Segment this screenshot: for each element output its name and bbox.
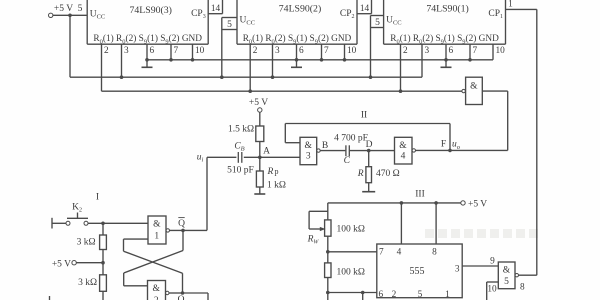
svg-text:R0(1) R0(2) S9(1) S9(2) GND: R0(1) R0(2) S9(1) S9(2) GND xyxy=(243,33,352,45)
ground at U1 pin6 xyxy=(441,60,452,68)
U1 pin 5 box (UCC) xyxy=(371,16,384,29)
counter U2 pin label U_CC xyxy=(240,16,256,27)
gate 5 output bubble xyxy=(515,274,518,277)
svg-text:UCC: UCC xyxy=(240,16,256,27)
svg-text:C: C xyxy=(344,156,351,166)
svg-text:3: 3 xyxy=(124,46,129,56)
label 555 xyxy=(410,266,425,277)
faint watermark remnant xyxy=(425,229,538,238)
svg-text:+5 V: +5 V xyxy=(468,200,487,210)
555 pin label 5 xyxy=(418,290,423,300)
svg-text:2: 2 xyxy=(403,46,408,56)
resistor 1.5 kOhm xyxy=(256,126,264,142)
svg-text:6: 6 xyxy=(379,290,384,300)
wire U2 pin10 xyxy=(344,44,346,60)
svg-text:10: 10 xyxy=(347,46,357,56)
svg-text:3: 3 xyxy=(425,46,430,56)
wire pin2 tie down (cut) xyxy=(362,293,364,300)
node U1 pin7 junction xyxy=(468,58,472,62)
svg-text:10: 10 xyxy=(496,46,506,56)
node U3 pin7 junction xyxy=(169,58,173,62)
svg-text:4: 4 xyxy=(401,152,406,162)
node pin6 line left junction xyxy=(326,291,330,295)
wire junction down (cut) xyxy=(327,293,329,300)
label Qbar xyxy=(178,218,185,229)
node pot / pin7 junction xyxy=(326,250,330,254)
counter U3 pin number 3 xyxy=(124,46,129,56)
label 470 Ohm xyxy=(376,169,400,179)
node A xyxy=(258,147,270,160)
gate 2 output bubble xyxy=(166,291,169,294)
gate 3 output bubble xyxy=(317,149,320,152)
label gate5 pin 9 xyxy=(490,257,495,267)
wire Qbar down (cross) xyxy=(182,230,184,250)
node U1 pin2 junction xyxy=(399,89,403,93)
U3 pin 14 box (CP) xyxy=(208,0,222,14)
node F xyxy=(448,149,452,153)
svg-text:Q: Q xyxy=(178,295,185,300)
wire 555 pin4 xyxy=(400,203,402,244)
label 1 kOhm xyxy=(267,181,286,191)
node D xyxy=(366,140,373,152)
svg-text:R: R xyxy=(357,169,364,179)
node 555 pin4 tap xyxy=(400,201,404,205)
label III xyxy=(415,190,425,200)
svg-text:2: 2 xyxy=(154,296,159,300)
wire U3 pin10 GND xyxy=(192,44,194,60)
counter U1 74LS90(1) body xyxy=(384,0,506,44)
wire gate4 output to node F xyxy=(416,149,451,151)
U2 pin 5 box (UCC) xyxy=(222,18,237,31)
wire junction down to 3k resistor xyxy=(102,223,104,235)
node U1 pin6 junction xyxy=(444,58,448,62)
counter U1 label 74LS90(1) xyxy=(426,4,468,15)
svg-text:7: 7 xyxy=(379,248,384,258)
svg-text:R: R xyxy=(267,167,274,177)
svg-text:p: p xyxy=(275,167,279,176)
wire feedback into gate3 top input xyxy=(285,124,300,143)
node U2 pin10 junction xyxy=(343,58,347,62)
svg-text:5: 5 xyxy=(504,277,509,287)
node K2 / R pull-up junction xyxy=(101,222,105,226)
svg-text:&: & xyxy=(305,141,313,151)
gate 4 output bubble xyxy=(412,149,415,152)
+5V supply terminal (middle) xyxy=(249,98,268,112)
555 pin label 6 xyxy=(379,290,384,300)
wire U2 UCC down to +5V bus xyxy=(221,18,223,78)
svg-text:9: 9 xyxy=(490,257,495,267)
ground at U3 pin6 xyxy=(142,60,153,68)
timer 555 body xyxy=(377,244,462,298)
ground below Rp xyxy=(254,187,265,194)
wire +5V left rail down xyxy=(69,15,71,77)
node 3k/3k junction xyxy=(101,261,105,265)
node U3 pin3 junction xyxy=(120,75,124,79)
svg-text:&: & xyxy=(470,82,478,92)
svg-text:CP2: CP2 xyxy=(340,9,355,20)
label R xyxy=(357,169,364,179)
wire gate5 output right xyxy=(519,274,537,276)
NAND gate 3 xyxy=(300,137,317,164)
svg-text:&: & xyxy=(503,266,511,276)
555 pin label 1 xyxy=(445,290,450,300)
svg-text:14: 14 xyxy=(360,4,370,14)
wire u_i to capacitor CB xyxy=(207,156,236,158)
svg-text:4 700 pF: 4 700 pF xyxy=(334,134,368,144)
counter U1 pin label U_CC xyxy=(386,16,402,27)
svg-text:UCC: UCC xyxy=(90,10,106,21)
wire reset gate input from F xyxy=(482,91,507,150)
svg-text:ui: ui xyxy=(197,153,204,164)
wire between 3k resistors xyxy=(102,263,104,275)
counter U3 pin-name row R0(1) R0(2) S9(1) S9(2) GND xyxy=(93,33,202,45)
svg-text:555: 555 xyxy=(410,266,425,277)
svg-text:uo: uo xyxy=(452,140,461,151)
wire Qbar up to u_i xyxy=(206,157,208,230)
+5V supply terminal (bottom left) xyxy=(52,260,76,270)
wire R0(1) reset bus xyxy=(102,90,462,92)
potentiometer RW 100k body xyxy=(325,220,331,236)
resistor 3 kOhm lower xyxy=(100,275,107,292)
pot RW wiper arrow xyxy=(309,211,328,231)
label gate5 pin 10 xyxy=(487,285,497,295)
wire U2 pin2 down to reset bus xyxy=(249,44,251,91)
svg-text:+5 V: +5 V xyxy=(249,98,268,108)
wire U1 pin10 (ground line end) xyxy=(492,44,494,60)
svg-text:F: F xyxy=(441,140,446,150)
wire +5V terminal to U3 UCC pin 5 xyxy=(53,14,87,16)
NAND gate 5 xyxy=(498,262,515,289)
wire U1 UCC down to +5V bus xyxy=(370,16,372,78)
counter U3 pin label CP3 xyxy=(191,9,206,20)
NAND gate 2 xyxy=(148,281,166,300)
wire node A to gate 3 input xyxy=(260,156,300,158)
node U1 UCC junction xyxy=(369,75,373,79)
counter U3 pin number 6 xyxy=(150,46,155,56)
label CB xyxy=(234,142,244,153)
wire 555 pin3 to gate 5 xyxy=(462,265,498,267)
svg-text:1: 1 xyxy=(445,290,450,300)
label F xyxy=(441,140,446,150)
svg-text:UCC: UCC xyxy=(386,16,402,27)
label Q xyxy=(178,295,185,300)
svg-text:6: 6 xyxy=(150,46,155,56)
counter U3 74LS90(3) body xyxy=(87,0,208,44)
wire cross diagonal gate2-out to gate1 xyxy=(124,251,183,293)
counter U1 pin number 7 xyxy=(473,46,478,56)
ground at U2 pin6 xyxy=(291,60,302,68)
wire node D down to R xyxy=(368,151,370,167)
node Q xyxy=(181,291,185,295)
label 3 kOhm lower xyxy=(78,278,97,288)
svg-text:B: B xyxy=(322,141,328,151)
svg-text:74LS90(3): 74LS90(3) xyxy=(129,5,171,16)
svg-text:2: 2 xyxy=(104,46,109,56)
label I xyxy=(96,193,99,203)
label 1.5 kOhm xyxy=(228,125,254,135)
capacitor C 4700pF xyxy=(346,145,349,156)
node pin2 tie junction xyxy=(361,291,365,295)
reset NAND gate (mirrored) xyxy=(466,77,483,104)
counter U2 label 74LS90(2) xyxy=(279,4,321,15)
pushbutton K2 xyxy=(66,203,88,226)
wire node A down to Rp xyxy=(259,157,261,171)
label u_o xyxy=(452,140,461,151)
svg-text:3 kΩ: 3 kΩ xyxy=(77,238,96,248)
counter U1 pin number 2 xyxy=(403,46,408,56)
wire CP1 right-side vertical to gate 5 output xyxy=(536,9,538,275)
svg-text:Q: Q xyxy=(178,219,185,229)
svg-text:6: 6 xyxy=(449,46,454,56)
node U2 pin6 junction xyxy=(295,58,299,62)
svg-text:3 kΩ: 3 kΩ xyxy=(78,278,97,288)
wire U1 pin7 xyxy=(469,44,471,60)
counter U1 pin label CP1 xyxy=(488,9,503,20)
svg-text:14: 14 xyxy=(211,4,221,14)
555 pin label 8 xyxy=(432,248,437,258)
counter U1 pin number 6 xyxy=(449,46,454,56)
node +5V rail tap xyxy=(68,14,72,18)
svg-text:8: 8 xyxy=(432,248,437,258)
svg-text:10: 10 xyxy=(487,285,497,295)
label 100 kOhm upper xyxy=(337,225,365,235)
wire feedback F up and left (loop II) xyxy=(285,124,450,151)
label RW xyxy=(307,235,320,246)
+5V supply terminal (top left) xyxy=(49,4,83,18)
svg-text:510 pF: 510 pF xyxy=(227,166,254,176)
label 4 700 pF xyxy=(334,134,368,144)
svg-text:7: 7 xyxy=(174,46,179,56)
wire U2 pin6 xyxy=(296,44,298,60)
ground below R 470 xyxy=(362,183,375,192)
svg-text:III: III xyxy=(415,190,425,200)
svg-text:2: 2 xyxy=(253,46,258,56)
label B xyxy=(322,141,328,151)
resistor 3 kOhm upper xyxy=(100,235,107,250)
resistor 100 kOhm lower xyxy=(325,263,331,278)
wire U3 pin6 S9(1) xyxy=(146,44,148,60)
wire capacitor C to node D xyxy=(350,150,369,152)
wire U2 pin7 xyxy=(321,44,323,60)
svg-text:74LS90(2): 74LS90(2) xyxy=(279,4,321,15)
wire node D to gate 4 xyxy=(369,150,395,152)
wire 3k to +5V node xyxy=(102,250,104,263)
wire U1 pin3 down to +5V bus (bus end) xyxy=(421,44,423,77)
wire +5V to junction xyxy=(76,262,103,264)
wire cross diagonal Qbar to gate2 xyxy=(124,251,183,286)
wire junction to 555 pin7 xyxy=(328,251,377,253)
counter U2 74LS90(2) body xyxy=(237,0,357,44)
svg-text:&: & xyxy=(153,284,161,294)
svg-text:1: 1 xyxy=(508,0,513,10)
svg-text:5: 5 xyxy=(375,18,380,28)
svg-text:100 kΩ: 100 kΩ xyxy=(337,268,365,278)
wire junction down to R100k xyxy=(327,252,329,263)
counter U1 pin number 10 xyxy=(496,46,506,56)
wire U1 pin2 down to reset bus xyxy=(400,44,402,91)
svg-text:CP3: CP3 xyxy=(191,9,206,20)
svg-text:5: 5 xyxy=(418,290,423,300)
555 pin label 3 xyxy=(455,265,460,275)
node U2 UCC junction xyxy=(220,75,224,79)
svg-text:D: D xyxy=(366,140,373,150)
resistor R 470 Ohm xyxy=(366,167,372,183)
node U2 pin3 junction xyxy=(271,75,275,79)
svg-text:5: 5 xyxy=(227,20,232,30)
counter U2 pin number 3 xyxy=(275,46,280,56)
svg-text:K2: K2 xyxy=(72,203,82,214)
counter U2 pin number 7 xyxy=(324,46,329,56)
svg-text:R0(1) R0(2) S9(1) S9(2) GND: R0(1) R0(2) S9(1) S9(2) GND xyxy=(390,33,499,45)
svg-text:10: 10 xyxy=(195,46,205,56)
wire U2 pin3 down to +5V bus xyxy=(272,44,274,77)
svg-text:A: A xyxy=(263,147,270,157)
resistor Rp 1 kOhm xyxy=(256,171,263,187)
svg-text:&: & xyxy=(399,141,407,151)
counter U3 pin number 7 xyxy=(174,46,179,56)
svg-text:&: & xyxy=(153,220,161,230)
counter U2 pin-name row R0(1) R0(2) S9(1) S9(2) GND xyxy=(243,33,352,45)
wire S9/GND ground line xyxy=(147,59,493,61)
svg-text:1: 1 xyxy=(154,232,159,242)
wire rail down to pot RW xyxy=(327,203,329,220)
node Qbar xyxy=(181,229,185,233)
svg-text:7: 7 xyxy=(473,46,478,56)
svg-text:3: 3 xyxy=(306,152,311,162)
555 pin label 7 xyxy=(379,248,384,258)
counter U3 pin number 2 xyxy=(104,46,109,56)
svg-text:R0(1) R0(2) S9(1) S9(2) GND: R0(1) R0(2) S9(1) S9(2) GND xyxy=(93,33,202,45)
+5V supply terminal (section III) xyxy=(461,200,488,210)
555 pin label 4 xyxy=(397,248,402,258)
svg-text:470 Ω: 470 Ω xyxy=(376,169,400,179)
svg-text:+5 V: +5 V xyxy=(54,4,73,14)
wire U3 pin7 S9(2) xyxy=(170,44,172,60)
wire 555 pin8 xyxy=(435,203,437,244)
wire Q right and down (cut) xyxy=(183,293,209,300)
svg-text:CP1: CP1 xyxy=(488,9,503,20)
wire U3 pin3 R0(2) down to +5V bus xyxy=(121,44,123,77)
node U2 pin2 junction xyxy=(248,89,252,93)
svg-text:3: 3 xyxy=(275,46,280,56)
wire +5V to R 1.5k xyxy=(259,112,261,126)
counter U2 pin number 2 xyxy=(253,46,258,56)
svg-text:II: II xyxy=(361,111,367,121)
label 100 kOhm lower xyxy=(337,268,365,278)
K2 lower contact stub (cut) xyxy=(49,296,51,300)
capacitor CB 510pF xyxy=(238,152,242,163)
label II xyxy=(361,111,367,121)
U1 pin 1 (CP1) lead xyxy=(506,0,537,10)
node U3 pin10 junction xyxy=(191,58,195,62)
wire gate1 output to Qbar node xyxy=(170,229,208,231)
counter U1 pin number 3 xyxy=(425,46,430,56)
svg-text:7: 7 xyxy=(324,46,329,56)
svg-text:+5 V: +5 V xyxy=(52,260,71,270)
wire U3 pin2 R0(1) down to reset bus xyxy=(101,44,103,91)
wire gate5 pin10 input xyxy=(487,282,499,300)
svg-text:1 kΩ: 1 kΩ xyxy=(267,181,286,191)
reset gate output bubble xyxy=(462,89,465,92)
gate 1 output bubble xyxy=(166,229,169,232)
node U2 pin7 junction xyxy=(320,58,324,62)
svg-text:1.5 kΩ: 1.5 kΩ xyxy=(228,125,254,135)
wire III +5V top rail xyxy=(328,202,461,204)
label gate5 pin 8 xyxy=(520,283,525,293)
svg-text:4: 4 xyxy=(397,248,402,258)
label C xyxy=(344,156,351,166)
svg-text:RW: RW xyxy=(307,235,320,246)
wire gate3 output to capacitor C xyxy=(320,150,345,152)
counter U3 label 74LS90(3) xyxy=(129,5,171,16)
svg-text:2: 2 xyxy=(392,290,397,300)
wire U1 pin6 xyxy=(445,44,447,60)
wire 3k lower down (cut) xyxy=(102,291,104,300)
counter U2 pin number 6 xyxy=(299,46,304,56)
U2 pin 14 box (CP) xyxy=(357,0,372,14)
NAND gate 4 xyxy=(395,137,413,164)
svg-text:CB: CB xyxy=(234,142,244,153)
label 3 kOhm upper xyxy=(77,238,96,248)
wire gate1 lower input xyxy=(124,239,149,251)
NAND gate 1 xyxy=(148,216,166,244)
counter U3 pin label U_CC xyxy=(90,10,106,21)
counter U1 pin-name row R0(1) R0(2) S9(1) S9(2) GND xyxy=(390,33,499,45)
label u_i xyxy=(197,153,204,164)
svg-text:8: 8 xyxy=(520,283,525,293)
555 pin label 2 xyxy=(392,290,397,300)
counter U2 pin number 10 xyxy=(347,46,357,56)
wire pot to junction xyxy=(327,236,329,252)
svg-text:I: I xyxy=(96,193,99,203)
svg-text:100 kΩ: 100 kΩ xyxy=(337,225,365,235)
node 555 pin8 tap xyxy=(434,201,438,205)
wire +5V / R0(2) bus xyxy=(70,76,422,78)
wire CB to node A xyxy=(244,156,260,158)
svg-text:6: 6 xyxy=(299,46,304,56)
wire K2 left terminal xyxy=(52,218,66,229)
wire R1.5k to node A xyxy=(259,142,261,158)
wire R100k to pin6 line xyxy=(327,278,329,293)
counter U3 pin number 10 xyxy=(195,46,205,56)
node U3 pin6 junction xyxy=(145,58,149,62)
wire gate2 output to Q node xyxy=(169,292,183,294)
label Rp xyxy=(267,167,279,177)
svg-text:3: 3 xyxy=(455,265,460,275)
wire F to reset gate riser xyxy=(450,149,508,151)
label 510 pF xyxy=(227,166,254,176)
counter U2 pin label CP2 xyxy=(340,9,355,20)
wire to 555 pin6 xyxy=(328,292,377,294)
svg-text:74LS90(1): 74LS90(1) xyxy=(426,4,468,15)
wire K2 to gate 1 input xyxy=(88,222,148,224)
svg-text:5: 5 xyxy=(78,4,83,14)
